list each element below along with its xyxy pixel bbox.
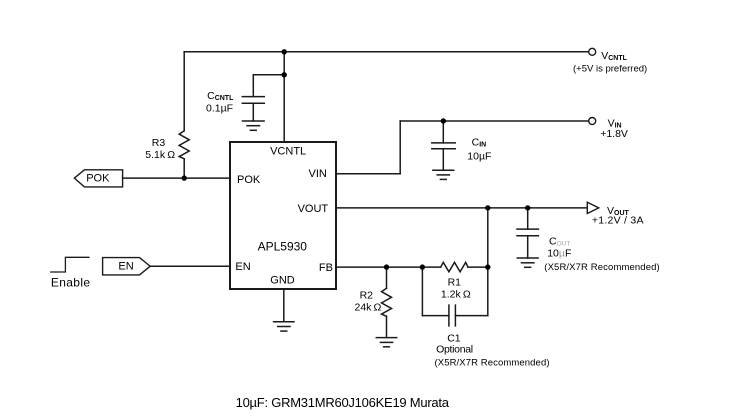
svg-text:Optional: Optional <box>436 343 473 355</box>
svg-text:R1: R1 <box>448 276 462 288</box>
svg-text:VCNTL: VCNTL <box>270 146 306 158</box>
svg-text:EN: EN <box>118 260 133 272</box>
svg-text:5.1k Ω: 5.1k Ω <box>145 149 175 161</box>
svg-text:R3: R3 <box>152 137 166 149</box>
svg-text:(X5R/X7R Recommended): (X5R/X7R Recommended) <box>435 358 550 369</box>
svg-text:10µF: 10µF <box>467 151 491 163</box>
svg-text:Enable: Enable <box>51 275 90 289</box>
svg-text:VOUT: VOUT <box>298 203 329 215</box>
svg-text:10µF: 10µF <box>547 247 571 259</box>
svg-text:R2: R2 <box>360 289 374 301</box>
svg-text:FB: FB <box>319 262 333 274</box>
svg-text:GND: GND <box>270 275 295 287</box>
svg-text:0.1µF: 0.1µF <box>206 103 233 115</box>
svg-text:VIN: VIN <box>309 168 327 180</box>
svg-text:+1.2V / 3A: +1.2V / 3A <box>592 215 644 227</box>
svg-text:(+5V is preferred): (+5V is preferred) <box>573 64 647 75</box>
svg-text:24k Ω: 24k Ω <box>355 302 382 314</box>
svg-text:EN: EN <box>235 261 250 273</box>
svg-text:(X5R/X7R Recommended): (X5R/X7R Recommended) <box>544 262 660 273</box>
svg-text:1.2k Ω: 1.2k Ω <box>441 288 471 300</box>
svg-text:10µF: GRM31MR60J106KE19 Murata: 10µF: GRM31MR60J106KE19 Murata <box>236 395 450 410</box>
svg-text:+1.8V: +1.8V <box>600 128 628 140</box>
svg-text:POK: POK <box>86 173 110 185</box>
svg-text:POK: POK <box>237 174 261 186</box>
svg-text:APL5930: APL5930 <box>258 240 308 254</box>
